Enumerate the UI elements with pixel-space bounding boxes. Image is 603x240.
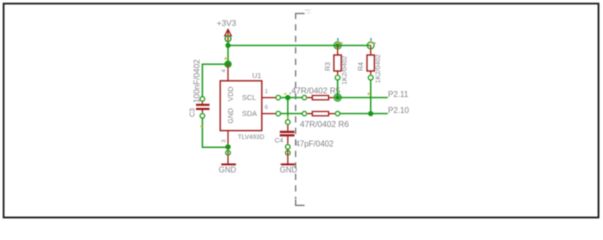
pin circle gnd symbol C4 — [286, 151, 291, 156]
resistor R4 — [367, 45, 374, 80]
svg-text:+3V3: +3V3 — [217, 19, 237, 28]
op-amp U1 box — [220, 81, 262, 131]
wire VDD to C3 branch — [202, 64, 228, 96]
pin circle R4 top — [367, 42, 374, 49]
+3V3 supply symbol — [225, 29, 232, 42]
tiny gray mark SCL junction — [289, 93, 291, 95]
pin circle SCL — [276, 95, 281, 100]
wire R4 to SDA crossing SCL — [370, 80, 372, 114]
svg-text:1K2/0402: 1K2/0402 — [375, 54, 382, 83]
wire C3 bottom to GND node — [202, 118, 228, 147]
pin stub C4 to ground — [287, 149, 289, 164]
pin circle gnd symbol — [226, 151, 231, 156]
svg-text:GND: GND — [219, 165, 237, 174]
junction SCL/C4 — [285, 95, 290, 100]
junction R3 top — [335, 43, 340, 48]
svg-text:SCL: SCL — [242, 93, 256, 102]
wire SCL to R5 — [281, 97, 303, 99]
resistor R5 — [302, 95, 337, 99]
resistor R6 — [302, 111, 340, 115]
tiny attribute marks R3 top — [337, 38, 343, 44]
tiny yellow mark C4 wire — [287, 116, 289, 118]
resistor R3 — [334, 45, 341, 80]
svg-text:VDD: VDD — [228, 87, 235, 102]
svg-text:R4: R4 — [358, 62, 365, 71]
svg-text:TLV493D: TLV493D — [238, 134, 265, 141]
pin circle SDA — [276, 111, 281, 116]
wire C4 drop from SCL junction — [287, 98, 289, 120]
svg-text:1: 1 — [265, 89, 268, 95]
tiny attribute mark SCL junction — [284, 93, 286, 95]
tiny attribute marks R4 top — [370, 38, 376, 44]
tiny yellow mark C3 bottom — [200, 126, 202, 128]
junction supply rail — [225, 43, 230, 48]
svg-text:P2.11: P2.11 — [388, 90, 409, 99]
capacitor C4 — [280, 120, 295, 149]
svg-text:3: 3 — [222, 140, 228, 143]
svg-text:U1: U1 — [252, 73, 261, 80]
svg-text:GND: GND — [280, 165, 298, 174]
pin 1 stub SCL — [262, 97, 276, 99]
tiny yellow mark supply column — [225, 58, 227, 60]
pin 6 stub SDA — [262, 113, 276, 115]
wire SDA to P2.10 — [340, 113, 388, 115]
dashed partition line bottom corner — [296, 200, 305, 206]
tiny yellow mark R4 wire — [368, 93, 370, 95]
junction VDD node — [225, 62, 230, 67]
capacitor C3 — [196, 97, 210, 119]
wire +3V3 rail to pullups — [228, 44, 371, 46]
pin 4 stub U1 — [227, 64, 229, 81]
wire R3 to SCL — [337, 80, 339, 98]
svg-text:P2.10: P2.10 — [388, 106, 409, 115]
svg-text:100nF/0402: 100nF/0402 — [193, 59, 202, 103]
junction SDA/R4 — [368, 111, 373, 116]
dashed partition line top corner — [296, 14, 305, 20]
svg-text:47pF/0402: 47pF/0402 — [295, 140, 334, 149]
svg-text:47R/0402 R6: 47R/0402 R6 — [300, 119, 349, 129]
svg-text:6: 6 — [265, 105, 268, 111]
junction GND node — [225, 144, 230, 149]
pin 3 stub U1 to ground — [227, 131, 229, 164]
wire SCL to P2.11 — [338, 97, 388, 99]
svg-text:R3: R3 — [325, 62, 332, 71]
ground symbol U1 — [221, 163, 236, 165]
svg-text:GND: GND — [228, 108, 235, 124]
svg-text:C3: C3 — [190, 108, 197, 117]
ground symbol C4 — [281, 163, 295, 165]
junction SCL/R3 — [335, 95, 340, 100]
svg-text:1K2/0402: 1K2/0402 — [341, 55, 348, 84]
faint ghost marks near dash top — [305, 10, 311, 14]
dashed partition line — [295, 24, 297, 199]
wire +3V3 vertical — [227, 42, 229, 65]
wire SDA to R6 — [281, 113, 303, 115]
svg-text:47R/0402 R5: 47R/0402 R5 — [292, 85, 341, 95]
svg-text:4: 4 — [222, 69, 228, 73]
svg-text:C4: C4 — [275, 138, 284, 145]
svg-text:SDA: SDA — [242, 109, 257, 118]
